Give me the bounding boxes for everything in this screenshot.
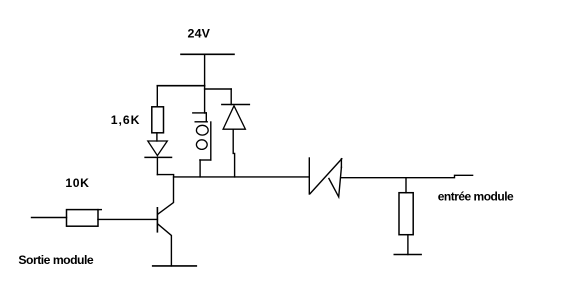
transistor Q1 collector: [158, 177, 174, 214]
resistor R1 1,6K body: [152, 107, 164, 133]
diode D1 cathode bar: [145, 156, 171, 158]
relay coil K1 bottom lead: [199, 160, 201, 177]
diode D1 triangle: [148, 141, 168, 156]
svg-text:Sortie module: Sortie module: [18, 253, 93, 267]
resistor R2 10K body: [67, 210, 99, 227]
diode D3 cathode bar: [308, 158, 310, 194]
diode D2 anode lead: [233, 129, 234, 177]
ground right: [394, 254, 421, 256]
wire R1 to D1: [156, 133, 158, 141]
svg-text:10K: 10K: [65, 176, 89, 190]
resistor R3 body: [399, 193, 413, 235]
diode D2 triangle: [223, 106, 245, 129]
relay coil K1 bottom bar: [200, 159, 211, 161]
diode D3 right edge: [340, 159, 342, 168]
relay coil K1 dash: [195, 121, 207, 123]
relay coil K1 loop 1: [196, 125, 208, 135]
relay coil K1 right side: [210, 122, 212, 160]
wire sortie input: [32, 217, 67, 219]
wire D1 bottom lead: [156, 157, 158, 174]
resistor R2 top overshoot: [98, 209, 101, 211]
diode D2 top lead: [230, 89, 232, 105]
transistor Q1 base bar: [156, 208, 158, 232]
wire 24V stub down to coil: [204, 54, 206, 113]
wire R3 bottom lead: [407, 235, 409, 255]
svg-text:entrée module: entrée module: [438, 190, 514, 204]
wire to entree module: [341, 175, 472, 177]
relay coil K1 link: [205, 113, 207, 122]
relay coil K1 loop 2: [196, 140, 207, 150]
wire R2 to base: [98, 218, 157, 220]
diode D3 triangle edges: [329, 167, 342, 197]
relay coil K1 top bar: [193, 112, 207, 114]
wire R3 top lead: [405, 178, 407, 193]
ground left: [153, 265, 197, 267]
transistor Q1 emitter: [158, 224, 171, 266]
24V power rail: [181, 53, 234, 55]
svg-text:24V: 24V: [188, 27, 211, 41]
wire R1 top lead: [156, 86, 158, 107]
wire top bus left: [157, 85, 204, 87]
wire top bus right: [205, 88, 232, 90]
diode D2 cathode bar: [222, 104, 250, 106]
diode D3 long diagonal: [310, 159, 342, 194]
svg-text:1,6K: 1,6K: [111, 113, 141, 127]
wire bottom bus: [157, 175, 309, 177]
